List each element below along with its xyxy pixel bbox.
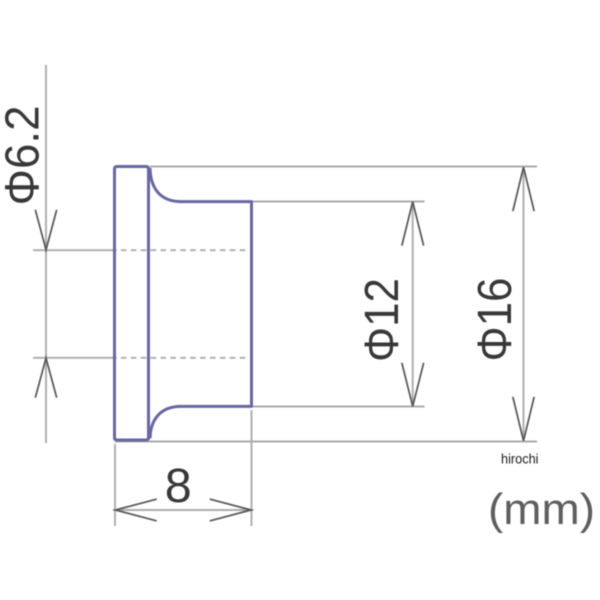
svg-text:Φ16: Φ16 [469, 278, 522, 362]
svg-text:Φ6.2: Φ6.2 [0, 106, 50, 206]
svg-text:Φ12: Φ12 [356, 278, 409, 362]
svg-text:hirochi: hirochi [501, 451, 539, 467]
svg-text:(mm): (mm) [488, 485, 595, 534]
svg-text:8: 8 [165, 459, 192, 513]
